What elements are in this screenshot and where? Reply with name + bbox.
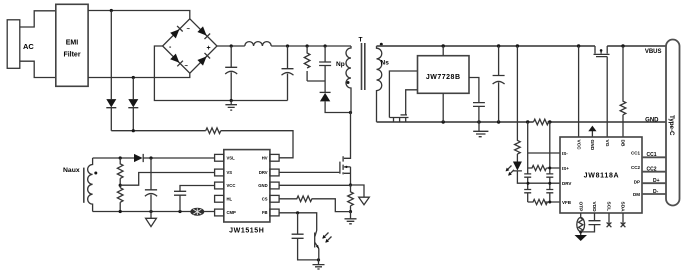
- pin box left 4: [215, 195, 224, 202]
- resistor R startup: [206, 128, 221, 134]
- wire VBUS rail: [377, 45, 667, 47]
- diode bridge upper-left: [170, 29, 179, 38]
- resistor R is filter: [528, 165, 550, 170]
- svg-text:DRV: DRV: [259, 170, 268, 175]
- wire source to ground arrow: [351, 185, 365, 197]
- diode bridge lower-left: [170, 54, 179, 63]
- pin box left 1: [215, 154, 224, 161]
- svg-text:VSL: VSL: [227, 156, 236, 161]
- transistor U3 optocoupler phototransistor: [314, 233, 316, 248]
- node source junction: [349, 183, 352, 186]
- svg-text:EMI: EMI: [66, 39, 79, 46]
- capacitor C vdd U4: [469, 78, 485, 123]
- thermistor RT otp: [580, 213, 582, 218]
- transistor Q3 load switch: [595, 46, 607, 50]
- diode D clamp: [320, 91, 331, 93]
- bridge rectifier BD1 diamond: [163, 19, 217, 73]
- svg-text:SCL: SCL: [606, 202, 612, 212]
- node divider mid: [119, 184, 122, 187]
- wire DC minus rail: [154, 46, 287, 101]
- pin box right 4: [270, 195, 279, 202]
- capacitor C vdd 8118: [581, 213, 601, 232]
- svg-text:SDA: SDA: [620, 202, 626, 213]
- resistor R snubber: [304, 46, 310, 81]
- transformer T secondary winding Ns: [377, 46, 382, 122]
- node HV junction: [132, 129, 135, 132]
- ground open triangle at source: [359, 197, 370, 205]
- wire D-: [642, 193, 666, 195]
- wire DC plus line: [217, 45, 351, 47]
- wire pin3R gnd to source: [280, 184, 351, 186]
- capacitor bulk C1: [225, 46, 237, 101]
- resistor R divider upper: [117, 158, 123, 188]
- diode D1 startup from top AC: [110, 11, 112, 100]
- diode bridge lower-right: [197, 56, 206, 65]
- capacitor C fb: [292, 213, 319, 260]
- node Np polarity dot: [347, 81, 350, 84]
- diode D2 startup from bottom AC: [132, 78, 134, 100]
- svg-text:CC2: CC2: [647, 166, 657, 172]
- svg-text:VFB: VFB: [562, 200, 572, 205]
- svg-text:Naux: Naux: [63, 167, 80, 174]
- LED arrows: [506, 166, 514, 176]
- svg-text:Type-C: Type-C: [668, 115, 675, 136]
- node drain junction: [349, 111, 352, 114]
- op-amp U1 JW8118A box: [560, 137, 642, 213]
- resistor R gate cs filter: [280, 196, 312, 202]
- wire pin5R FB line: [280, 213, 317, 231]
- svg-text:GND: GND: [589, 140, 595, 151]
- ground open triangle aux: [146, 212, 157, 227]
- ground below U4 cap: [473, 122, 488, 137]
- svg-text:DB: DB: [620, 140, 626, 147]
- USB Type-C connector: [666, 40, 680, 206]
- wire D+: [642, 182, 666, 184]
- capacitor C fb2: [546, 190, 553, 193]
- wire pin2 arrow stub: [591, 131, 593, 137]
- resistor R vfb: [528, 199, 560, 204]
- transistor Q1 main MOSFET: [344, 113, 351, 159]
- wire U4 top pin: [442, 46, 444, 56]
- pin box right 2: [270, 169, 279, 176]
- resistor R shunt inline: [534, 119, 549, 125]
- pin box right 3: [270, 182, 279, 189]
- wire AC line bottom: [88, 73, 190, 77]
- wire AC line top: [88, 11, 190, 19]
- svg-text:CC2: CC2: [631, 165, 640, 170]
- diode bridge upper-right: [197, 26, 206, 35]
- ground at sense resistor: [345, 212, 357, 224]
- svg-text:CMP: CMP: [227, 210, 237, 215]
- optocoupler light arrows: [323, 233, 332, 243]
- wire GND rail: [377, 121, 667, 123]
- svg-text:DM: DM: [633, 192, 640, 197]
- capacitor C fb1: [524, 190, 531, 193]
- wire HV startup line: [111, 130, 205, 132]
- svg-text:AC: AC: [23, 42, 34, 51]
- svg-text:Ns: Ns: [381, 60, 390, 67]
- resistor R led: [515, 46, 521, 162]
- svg-text:T: T: [359, 37, 363, 44]
- resistor R divider lower: [117, 188, 123, 212]
- diode D aux: [134, 154, 143, 162]
- capacitor C out electrolytic: [493, 46, 505, 122]
- ground filled triangle otp: [575, 235, 588, 241]
- svg-text:IS+: IS+: [562, 166, 569, 171]
- svg-text:+: +: [207, 45, 211, 52]
- capacitor C is2: [546, 174, 553, 177]
- svg-text:VCC: VCC: [227, 183, 236, 188]
- svg-text:DP: DP: [634, 180, 640, 185]
- svg-text:VDD: VDD: [591, 202, 597, 213]
- wire CC1: [642, 156, 666, 158]
- svg-text:VBUS: VBUS: [645, 49, 662, 55]
- pin box left 5: [215, 209, 224, 216]
- svg-text:HV: HV: [262, 156, 268, 161]
- svg-text:GND: GND: [258, 183, 267, 188]
- node top AC junction: [110, 9, 113, 12]
- EMI filter box: [56, 4, 88, 86]
- thermistor RT inline oval: [191, 208, 204, 215]
- LED indicator: [513, 162, 522, 171]
- wire IS- sense left: [528, 122, 560, 202]
- wire CS elbow: [312, 199, 351, 212]
- node bottom AC junction: [132, 76, 135, 79]
- wire load switch gate: [606, 57, 608, 137]
- transformer T core: [362, 43, 365, 90]
- wire CC2: [642, 171, 666, 173]
- svg-text:CC1: CC1: [631, 150, 640, 155]
- svg-text:CC1: CC1: [647, 152, 657, 158]
- wire VCC pin: [578, 46, 580, 137]
- svg-text:VCC: VCC: [575, 140, 581, 151]
- capacitor C is1: [524, 174, 531, 177]
- wire aux bottom: [93, 211, 215, 213]
- wire sync fet gate to U4: [406, 90, 418, 115]
- op-amp U2 JW1515H box: [224, 150, 270, 222]
- op-amp U4 JW7728B box: [418, 56, 470, 94]
- svg-text:JW7728B: JW7728B: [426, 74, 461, 81]
- capacitor C2: [282, 46, 294, 101]
- inductor L1: [245, 42, 271, 46]
- svg-text:CS: CS: [262, 197, 268, 202]
- resistor R sense: [348, 185, 354, 212]
- svg-text:VS: VS: [227, 170, 233, 175]
- svg-text:~: ~: [185, 64, 189, 70]
- svg-text:IS-: IS-: [562, 151, 568, 156]
- AC source plug: [7, 20, 20, 69]
- wire HV to pin: [221, 131, 293, 158]
- node Naux polarity dot: [94, 172, 97, 175]
- svg-text:FB: FB: [262, 210, 268, 215]
- svg-text:HL: HL: [227, 197, 233, 202]
- pin box right 5: [270, 209, 279, 216]
- wire divider tap to VS pin: [120, 173, 214, 186]
- resistor R pullup db: [620, 46, 626, 137]
- pin box left 3: [215, 182, 224, 189]
- node Ns polarity dot: [380, 43, 383, 46]
- capacitor C vcc aux: [145, 158, 157, 212]
- no-connect SDA: [622, 213, 624, 225]
- svg-text:JW1515H: JW1515H: [229, 228, 264, 235]
- svg-text:JW8118A: JW8118A: [584, 173, 620, 180]
- capacitor C pin3: [174, 186, 215, 212]
- transistor Q2 sync rectifier MOSFET: [389, 117, 408, 119]
- wire pin2R gate drive: [280, 171, 340, 173]
- ground at optocoupler: [313, 260, 325, 269]
- svg-text:Np: Np: [336, 61, 345, 68]
- pin box left 2: [215, 169, 224, 176]
- pin box right 1: [270, 154, 279, 161]
- svg-text:D+: D+: [653, 178, 660, 184]
- no-connect SCL: [608, 213, 610, 225]
- wire aux top: [93, 157, 134, 159]
- capacitor C snubber: [319, 46, 331, 81]
- svg-text:D-: D-: [653, 189, 659, 195]
- svg-text:VG: VG: [604, 140, 610, 147]
- svg-text:~: ~: [187, 27, 191, 33]
- svg-text:DRV: DRV: [562, 181, 571, 186]
- wire IS+ sense right: [550, 122, 560, 202]
- svg-text:Filter: Filter: [63, 52, 80, 59]
- wire sync fet drain to U4: [389, 71, 417, 118]
- transformer T primary winding Np: [346, 46, 351, 113]
- svg-text:GND: GND: [645, 117, 659, 123]
- wire U4 bottom pin: [442, 93, 444, 122]
- wire snubber bottom: [307, 81, 325, 92]
- svg-text:OTP: OTP: [577, 202, 583, 213]
- ground primary at C1: [225, 101, 237, 111]
